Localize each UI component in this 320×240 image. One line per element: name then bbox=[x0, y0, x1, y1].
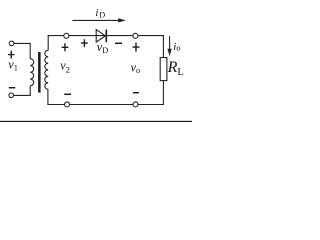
primary coil of transformer bbox=[30, 59, 34, 86]
plus sign vo bbox=[133, 43, 140, 52]
minus sign v2 bbox=[64, 93, 71, 95]
diode D1 cathode bar bbox=[105, 30, 107, 43]
node B top bbox=[133, 33, 138, 38]
node A top bbox=[64, 33, 69, 38]
minus sign vo bbox=[133, 92, 139, 94]
svg-text:io: io bbox=[173, 41, 180, 53]
plus sign vD bbox=[81, 39, 88, 47]
svg-text:vD: vD bbox=[97, 40, 108, 55]
terminal top-left bbox=[9, 41, 14, 46]
separator line bbox=[0, 121, 192, 122]
current arrow iD bbox=[72, 19, 119, 21]
wire bottom bbox=[48, 81, 163, 105]
wire primary bottom bbox=[14, 86, 31, 96]
plus sign v2 bbox=[62, 43, 69, 51]
svg-text:iD: iD bbox=[95, 7, 105, 19]
svg-text:v1: v1 bbox=[8, 57, 18, 72]
wire primary top bbox=[14, 43, 30, 58]
node D bottom bbox=[133, 102, 138, 107]
svg-text:RL: RL bbox=[167, 59, 184, 78]
wire secondary top and output top bbox=[48, 36, 163, 58]
minus sign vD bbox=[115, 42, 122, 44]
plus sign v1 bbox=[8, 51, 14, 59]
resistor RL bbox=[160, 58, 167, 81]
terminal bottom-left bbox=[9, 93, 14, 98]
svg-text:v2: v2 bbox=[60, 59, 70, 75]
transformer core bbox=[38, 52, 41, 93]
svg-text:vo: vo bbox=[131, 60, 141, 75]
diode D1 triangle bbox=[96, 30, 105, 42]
secondary coil of transformer bbox=[45, 50, 48, 89]
minus sign v1 bbox=[9, 87, 16, 89]
node C bottom bbox=[65, 102, 70, 107]
current arrow iO bbox=[169, 36, 171, 50]
